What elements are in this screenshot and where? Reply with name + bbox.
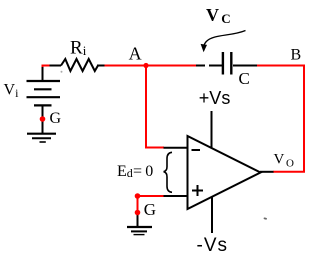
- svg-text:Vi: Vi: [4, 82, 20, 101]
- svg-text:Ri: Ri: [70, 37, 87, 58]
- svg-text:A: A: [129, 43, 142, 63]
- svg-text:V: V: [274, 152, 285, 168]
- svg-text:G: G: [50, 110, 62, 127]
- svg-text:B: B: [291, 47, 302, 64]
- svg-text:Ed=0: Ed=0: [117, 163, 153, 180]
- svg-text:VC: VC: [206, 5, 231, 26]
- svg-text:O: O: [286, 158, 294, 170]
- svg-text:G: G: [144, 200, 156, 219]
- svg-text:C: C: [239, 69, 250, 88]
- svg-text:-Vs: -Vs: [197, 235, 229, 256]
- svg-text:+Vs: +Vs: [199, 88, 231, 108]
